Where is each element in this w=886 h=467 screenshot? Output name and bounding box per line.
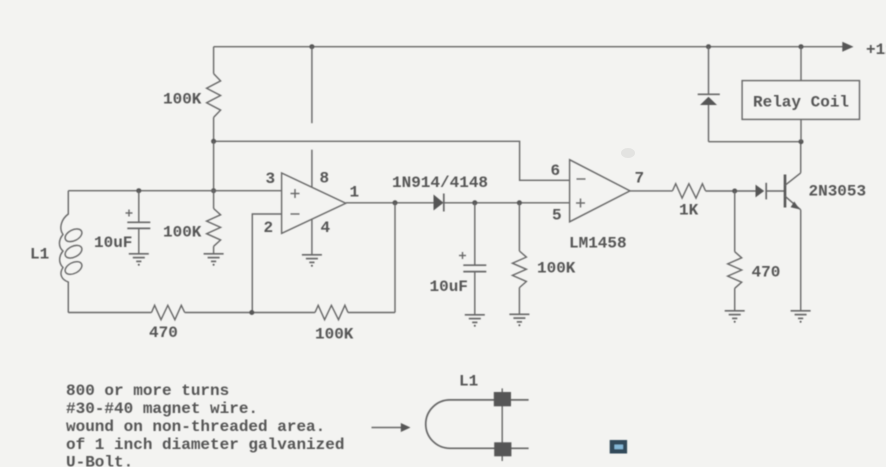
ground (C2) [465, 315, 485, 327]
svg-text:10uF: 10uF [94, 234, 132, 252]
op-amp U1A plus input mark [291, 189, 300, 198]
svg-text:of 1 inch diameter galvanized: of 1 inch diameter galvanized [66, 436, 344, 454]
resistor R2 100K (divider lower) [213, 191, 215, 209]
wire relay bottom lead [800, 119, 802, 141]
inductor L1 U-bolt drawing [426, 400, 529, 448]
resistor R3 470 [152, 305, 185, 319]
svg-text:470: 470 [149, 324, 178, 342]
node junction cap C1 [136, 188, 141, 193]
ground (C1) [129, 254, 149, 266]
svg-text:7: 7 [635, 170, 645, 188]
node junction divider mid [211, 139, 216, 144]
wire R6 to D2 [706, 190, 756, 192]
svg-text:2N3053: 2N3053 [809, 183, 867, 201]
svg-text:1N914/4148: 1N914/4148 [392, 174, 488, 192]
resistor R6 1K [673, 184, 706, 198]
transistor Q1 2N3053 [784, 175, 787, 208]
svg-text:100K: 100K [163, 224, 202, 242]
wire D1 cathode to pin 5 [444, 202, 570, 204]
node junction output / feedback [393, 200, 398, 205]
svg-text:6: 6 [551, 162, 561, 180]
resistor R5 100K (detector load) [518, 203, 520, 251]
svg-text:#30-#40 magnet wire.: #30-#40 magnet wire. [66, 400, 258, 418]
wire oscillator input node (coil top) [68, 190, 281, 192]
svg-text:470: 470 [752, 264, 781, 282]
svg-text:1K: 1K [679, 202, 699, 220]
capacitor C2 polarity + [459, 252, 466, 259]
svg-text:100K: 100K [537, 260, 576, 278]
svg-text:5: 5 [552, 207, 562, 225]
node U-bolt nut upper [494, 392, 511, 406]
inductor L1 (search coil) [59, 191, 68, 313]
svg-text:100K: 100K [315, 326, 354, 344]
wire +12V top rail [214, 46, 845, 48]
node junction relay bottom [799, 139, 804, 144]
resistor R7 470 [734, 191, 736, 252]
ground (R2) [204, 254, 224, 266]
wire U-bolt plate [501, 388, 503, 461]
node junction feedback / pin2 [249, 310, 254, 315]
wire D2 to base [766, 190, 785, 192]
op-amp U1B LM1458 [570, 160, 630, 222]
svg-text:Relay Coil: Relay Coil [753, 94, 849, 112]
diode D3 flyback [708, 47, 710, 95]
node junction C2 [472, 200, 477, 205]
op-amp U1A minus input mark [291, 213, 300, 215]
capacitor C1 polarity + [126, 210, 133, 217]
op-amp U1B minus input mark [577, 178, 586, 180]
svg-text:3: 3 [266, 170, 276, 188]
node junction top rail / flyback diode [706, 44, 711, 49]
ground (R7) [725, 311, 745, 323]
op-amp U1B plus input mark [576, 199, 585, 208]
node junction top rail / pin8 branch [309, 44, 314, 49]
svg-text:4: 4 [321, 219, 331, 237]
wire half-supply rail to pin6 [214, 141, 570, 180]
wire divider mid down to input node [213, 141, 215, 191]
ground (Q1 emitter) [791, 311, 811, 323]
svg-text:1: 1 [350, 184, 360, 202]
node +12V arrow [842, 42, 853, 52]
svg-text:100K: 100K [163, 91, 202, 109]
wire pin 2 to feedback rail [252, 214, 281, 313]
node junction R5 [517, 200, 522, 205]
ground (U1A pin4) [302, 255, 322, 267]
wire output down to feedback rail [394, 203, 396, 313]
svg-text:U-Bolt.: U-Bolt. [66, 454, 133, 467]
wire pin 4 to ground [311, 219, 313, 255]
svg-text:wound on non-threaded area.: wound on non-threaded area. [66, 418, 325, 436]
svg-text:8: 8 [320, 170, 330, 188]
wire U1B output to R6 [630, 190, 673, 192]
resistor R1 100K (supply divider upper) [213, 47, 215, 74]
svg-text:10uF: 10uF [430, 278, 468, 296]
svg-text:L1: L1 [459, 373, 478, 391]
wire flyback to relay bottom [709, 141, 802, 143]
node blue marker [610, 440, 627, 454]
wire pin 8 to +12V (crosses rail with gap) [311, 47, 313, 124]
wire emitter down to ground [800, 210, 802, 311]
relay coil K1 box [800, 47, 802, 81]
svg-text:800 or more turns: 800 or more turns [66, 382, 229, 400]
node pointer arrow to U-bolt [372, 427, 403, 429]
ground (R5) [509, 314, 529, 326]
wire feedback bottom rail [68, 312, 151, 314]
op-amp U1A LM1458 [282, 173, 346, 233]
diode D1 1N914/4148 [434, 195, 444, 211]
diode D2 (base) [756, 185, 765, 198]
svg-text:2: 2 [264, 219, 274, 237]
wire collector up to relay [800, 142, 802, 173]
capacitor C1 10uF [138, 191, 140, 222]
capacitor C2 10uF [474, 203, 476, 265]
node junction input node / divider [211, 188, 216, 193]
svg-text:L1: L1 [30, 246, 49, 264]
svg-text:+12V: +12V [866, 41, 886, 59]
node junction top rail / relay coil [799, 44, 804, 49]
wire U1A output node [346, 202, 434, 204]
svg-text:LM1458: LM1458 [569, 235, 627, 253]
resistor R4 100K (feedback) [315, 305, 348, 319]
node U-bolt nut lower [494, 442, 511, 456]
node junction base node / R7 [732, 189, 737, 194]
